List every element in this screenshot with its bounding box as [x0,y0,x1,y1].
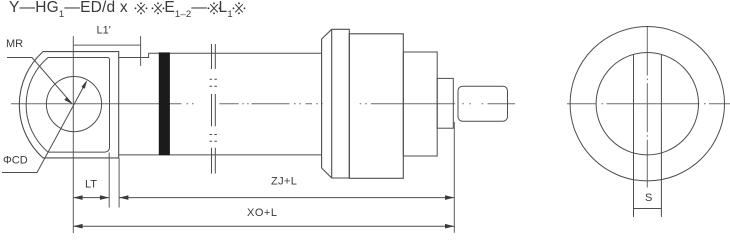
rod nut block [437,78,453,128]
break line left [211,44,213,174]
main horizontal centerline [11,103,515,105]
side view inner circle [596,52,698,154]
wrench flat chord right / S extension [660,55,662,218]
svg-text:XO+L: XO+L [247,207,277,219]
svg-text:ZJ+L: ZJ+L [271,176,297,188]
break line right [214,44,216,174]
side view outer circle [570,27,724,181]
wrench flat chord left / S extension [633,55,635,218]
extension line at eye inner edge [108,153,110,208]
head retainer ring (chamfered) [322,29,350,178]
rod end block (rounded) [458,86,508,121]
svg-text:ΦCD: ΦCD [3,155,28,167]
title text [9,0,245,19]
XO+L dimension line with arrows [73,225,454,227]
clamp band (black) [159,52,170,155]
L1' dimension: extension line right [140,36,142,66]
tube top line [149,52,322,54]
svg-text:LT: LT [85,179,97,191]
eye vertical centerline / extension line [72,36,74,233]
svg-text:S: S [645,192,652,204]
L1' dimension line [73,44,140,46]
gland block [403,52,437,156]
side view vertical centerline [646,27,648,188]
LT dimension line with arrows [73,197,109,199]
extension line at tube start [118,158,120,208]
break tick marks [210,79,217,141]
clevis eye outer profile [19,52,118,158]
clevis eye inner outline [26,58,109,153]
extension line at rod nut [453,122,455,233]
PhiCD leader with arrow to bore circle [2,82,86,173]
head flange [349,34,403,179]
side view horizontal centerline [567,103,730,105]
MR leader with arrow to eye centre [7,58,72,104]
tube bottom line [119,154,322,156]
ZJ+L dimension line with arrows [119,197,454,199]
S dimension line [634,208,662,210]
svg-text:MR: MR [6,38,23,50]
svg-text:L1': L1' [97,25,111,37]
pin bore circle CD [46,77,101,132]
cylinder cap neck top line [119,53,149,57]
